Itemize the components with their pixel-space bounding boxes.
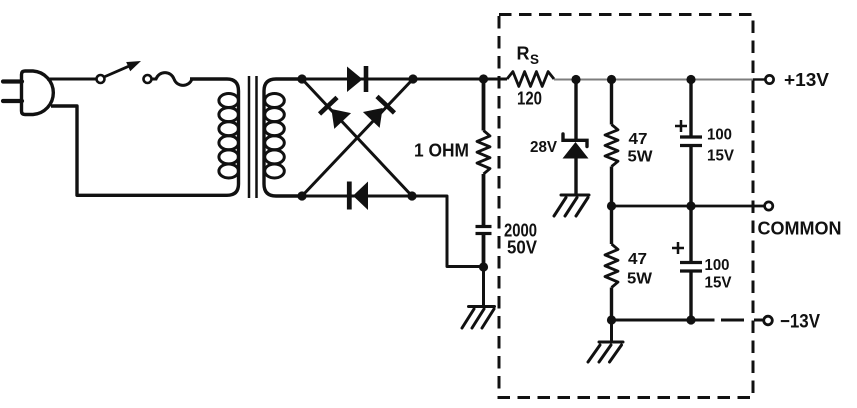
transformer T1 core: [249, 76, 257, 198]
svg-text:5W: 5W: [627, 271, 653, 288]
switch S1: [97, 61, 142, 83]
diode D1 (bridge top edge): [347, 66, 366, 92]
node bridge top-right junction: [408, 74, 417, 83]
svg-text:15V: 15V: [707, 148, 734, 165]
svg-text:15V: 15V: [705, 275, 732, 292]
ground G1 (filter): [462, 267, 495, 328]
ac plug P1: [3, 71, 53, 115]
node C2 top junction: [686, 75, 695, 84]
wire -13V rail: [612, 319, 715, 322]
resistor R1 1 OHM (bleeder): [477, 79, 490, 174]
diode D3 (bridge TL-BR diagonal): [320, 97, 352, 129]
ground G3 (-13V rail): [588, 320, 623, 362]
terminal +13V: [765, 75, 773, 83]
node -13V-R3 junction: [607, 315, 616, 324]
capacitor C2 100uF 15V (upper): [675, 80, 702, 207]
value label 2000 50V: [504, 221, 537, 258]
terminal COMMON: [765, 202, 773, 210]
node zener top junction: [571, 75, 580, 84]
svg-text:47: 47: [629, 131, 648, 148]
wire COMMON rail: [612, 205, 765, 208]
fuse F1: [144, 73, 193, 86]
svg-text:100: 100: [705, 257, 730, 274]
value label 47 5W (upper): [628, 131, 654, 166]
node bridge bottom-right junction: [407, 191, 416, 200]
wire fuse to primary top, primary side and bottom return to plug: [51, 79, 239, 195]
node bridge bottom-left junction: [297, 191, 306, 200]
dashed regulator enclosure box: [499, 15, 753, 398]
ground G2 (zener): [554, 195, 589, 216]
capacitor C1 2000uF 50V (filter): [476, 174, 492, 267]
svg-text:−13V: −13V: [780, 312, 820, 333]
svg-text:47: 47: [628, 251, 647, 268]
value label 100 15V (upper): [707, 127, 734, 165]
svg-text:28V: 28V: [530, 139, 557, 156]
node -13V-C3 junction: [686, 315, 695, 324]
node COMMON-C2 junction: [686, 201, 695, 210]
node filter bottom junction: [479, 262, 488, 271]
resistor R3 47 5W (lower): [605, 206, 618, 320]
svg-text:5W: 5W: [628, 149, 654, 166]
terminal -13V: [764, 316, 773, 325]
wire bridge bottom edge and jog to filter junction: [302, 196, 481, 267]
resistor RS 120: [507, 72, 554, 87]
zener diode Z1 28V: [563, 79, 589, 195]
wire bridge output to RS: [413, 78, 507, 81]
diode D4 (bridge BL-TR diagonal): [363, 96, 395, 128]
node COMMON-R2 junction: [607, 201, 616, 210]
svg-text:100: 100: [707, 127, 732, 144]
wire bridge top edge: [302, 78, 413, 81]
svg-text:1 OHM: 1 OHM: [414, 141, 469, 161]
wire +13V rail stub to terminal: [753, 78, 765, 80]
wire -13V rail dashed stubs to terminal: [721, 319, 763, 322]
wire +13V rail (faint): [554, 79, 753, 81]
resistor R2 47 5W (upper): [605, 80, 618, 207]
wire plug to switch: [47, 78, 96, 81]
node R2 top junction: [607, 75, 616, 84]
svg-text:120: 120: [517, 89, 542, 109]
value label 47 5W (lower): [627, 251, 653, 288]
node filter top junction: [479, 74, 488, 83]
svg-text:COMMON: COMMON: [758, 219, 842, 239]
wire bridge diagonal TL-BR: [302, 79, 412, 196]
node bridge top-left junction: [297, 74, 306, 83]
capacitor C3 100uF 15V (lower): [672, 206, 702, 320]
svg-text:+13V: +13V: [784, 70, 829, 90]
svg-text:50V: 50V: [507, 238, 537, 258]
value label 100 15V (lower): [705, 257, 732, 292]
wire secondary to bridge corners: [264, 79, 302, 196]
wire bridge diagonal BL-TR: [302, 79, 413, 196]
transformer T1 primary winding: [219, 94, 239, 179]
transformer T1 secondary winding: [265, 94, 285, 179]
diode D2 (bridge bottom edge): [349, 182, 368, 211]
